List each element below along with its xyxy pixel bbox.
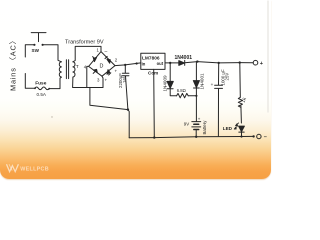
svg-text:Fuse: Fuse — [35, 81, 47, 87]
LED arrows — [234, 123, 238, 129]
node com rail — [153, 136, 155, 138]
bridge diode top-right — [107, 59, 110, 63]
svg-text:1: 1 — [97, 48, 100, 53]
svg-text:3: 3 — [97, 77, 100, 82]
transformer T primary winding — [59, 62, 61, 77]
wire mains neutral stub — [25, 74, 35, 89]
svg-text:D: D — [100, 64, 104, 70]
svg-text:+: + — [115, 69, 118, 74]
bridge rectifier D diamond — [89, 52, 115, 77]
svg-text:25V: 25V — [225, 73, 230, 81]
resistor R2 6.8 ohm — [177, 93, 189, 97]
diode D7 1N4001 vertical — [195, 62, 197, 81]
wire top rail bridge to regulator — [115, 63, 141, 66]
wire neutral to transformer — [49, 77, 61, 88]
node battery rail — [195, 136, 197, 138]
svg-text:Transformer 9V: Transformer 9V — [65, 39, 104, 45]
wire bottom-left run to cap node — [90, 87, 128, 109]
svg-text:1N4009: 1N4009 — [163, 75, 168, 92]
svg-text:+: + — [260, 61, 264, 67]
wire out to node A — [165, 62, 170, 64]
node rail blob — [136, 62, 138, 64]
wire resistor to branch — [188, 95, 196, 97]
wire diode D7 to battery — [195, 88, 197, 121]
svg-text:–: – — [264, 135, 267, 141]
bridge diode bottom-right — [107, 70, 110, 75]
paper speck — [51, 116, 52, 117]
node B — [196, 60, 198, 62]
scan edge line — [267, 1, 269, 112]
svg-text:9V: 9V — [184, 121, 189, 126]
wire bridge corner3 down — [102, 76, 103, 87]
svg-text:1N4001: 1N4001 — [199, 73, 204, 90]
fuse F1 — [35, 87, 50, 90]
regulator U1 LM7806 box — [141, 53, 165, 69]
svg-text:in: in — [142, 62, 146, 67]
wire regulator common to bottom rail — [153, 69, 156, 137]
svg-text:WELLPCB: WELLPCB — [20, 167, 49, 173]
svg-text:–: – — [105, 49, 108, 55]
node cap2200 bottom junction — [127, 108, 129, 110]
node cap2200 top — [124, 64, 126, 66]
svg-text:Battery: Battery — [202, 120, 207, 135]
svg-text:SW: SW — [32, 48, 40, 53]
svg-text:out: out — [157, 61, 164, 66]
watermark WELLPCB — [5, 161, 65, 177]
svg-text:1N4001: 1N4001 — [175, 55, 193, 61]
wire bottom rail — [129, 136, 253, 137]
capacitor C2 1000uF — [215, 63, 223, 136]
svg-text:1k: 1k — [240, 96, 248, 104]
bridge diode top-left — [93, 57, 96, 61]
diode D5 1N4001 horizontal — [179, 61, 185, 66]
wire diode D6 to resistor — [170, 89, 176, 96]
resistor R1 1k — [239, 63, 242, 98]
terminal plus output — [253, 60, 258, 65]
bridge diode bottom-left — [93, 69, 97, 72]
node led rail — [240, 135, 242, 137]
capacitor C1 2200uF — [122, 65, 129, 110]
svg-text:16V: 16V — [122, 75, 127, 83]
svg-text:+: + — [198, 117, 201, 122]
svg-text:T: T — [76, 64, 79, 70]
diode D6 1N4009 vertical — [169, 63, 171, 82]
switch SW button — [31, 33, 46, 42]
switch SW contacts — [33, 44, 35, 46]
wire bridge corner4 down — [87, 66, 89, 87]
terminal minus output — [257, 134, 261, 138]
wire diode D5 to node B — [185, 62, 198, 63]
node 1k top — [239, 61, 241, 63]
transformer T secondary winding — [73, 62, 75, 77]
transformer core — [66, 60, 68, 79]
node resistor join — [195, 95, 197, 97]
wire node A to diode D5 — [170, 62, 179, 64]
wire secondary bottom — [73, 77, 103, 87]
wire battery to bottom rail — [195, 130, 197, 137]
svg-text:6.8Ω: 6.8Ω — [177, 88, 186, 93]
svg-text:0.5A: 0.5A — [37, 92, 47, 97]
node terminal rail — [252, 135, 254, 137]
node A — [169, 62, 171, 64]
wire secondary top to bridge — [73, 46, 101, 61]
wire mains live stub — [25, 45, 33, 57]
node cap1000 top — [218, 62, 220, 64]
wire jog down to bottom rail — [128, 110, 129, 138]
svg-text:Com: Com — [148, 70, 158, 75]
wire top rail node B to plus terminal — [197, 62, 253, 63]
wire live to transformer — [43, 45, 61, 62]
svg-text:2: 2 — [115, 58, 118, 63]
svg-text:+: + — [211, 82, 214, 87]
svg-text:LED: LED — [223, 126, 233, 131]
LED D8 — [239, 126, 245, 132]
svg-text:Mains 〈AC〉: Mains 〈AC〉 — [9, 36, 18, 91]
svg-text:+: + — [105, 78, 108, 83]
battery BT1 — [192, 121, 201, 123]
